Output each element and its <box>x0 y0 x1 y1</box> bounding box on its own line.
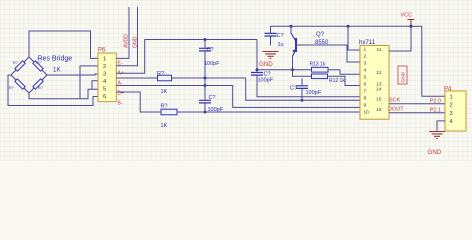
junction C7 bottom on A+ row <box>204 77 207 80</box>
svg-text:Res Bridge: Res Bridge <box>38 56 73 63</box>
wire P6 to R7 <box>116 77 157 79</box>
svg-text:100pF: 100pF <box>306 90 322 96</box>
junction C10 bottom <box>301 99 304 102</box>
wire hx711 pin11 to rail <box>389 26 411 51</box>
capacitor C8 plates <box>199 100 211 103</box>
svg-text:3: 3 <box>103 72 106 78</box>
svg-text:R?: R? <box>9 86 14 90</box>
capacitor C7 plates <box>199 48 211 51</box>
wire P6 pin1 to AVDD riser <box>116 7 129 58</box>
svg-text:2: 2 <box>103 64 106 70</box>
ground under C11 <box>263 52 279 59</box>
svg-text:8550: 8550 <box>315 40 329 46</box>
svg-text:GND: GND <box>428 149 442 156</box>
svg-text:3: 3 <box>450 111 453 117</box>
resistor bridge (Res Bridge) <box>11 57 47 93</box>
wire row A to hx711 pin8 <box>246 78 360 100</box>
wire rail to hx711 pin1 <box>348 26 360 50</box>
wire rail drop through C9 to hx711 pin7 <box>257 40 360 97</box>
junction C7 top <box>204 38 207 41</box>
svg-text:100pF: 100pF <box>258 78 274 84</box>
wire Q7 base to hx711 pin2 <box>296 45 360 62</box>
svg-text:1u: 1u <box>278 42 284 48</box>
junction VCC dot on rail <box>410 25 413 28</box>
wire to R12 <box>293 70 312 77</box>
svg-text:P6: P6 <box>98 48 106 54</box>
wire P6 pin2 to GND riser <box>116 7 137 66</box>
svg-text:1: 1 <box>364 47 367 53</box>
svg-text:10: 10 <box>364 110 370 116</box>
connector P6 <box>98 53 116 102</box>
wire DOUT <box>389 112 445 114</box>
junction row B <box>204 84 207 87</box>
svg-text:1K: 1K <box>161 89 168 95</box>
wire VCC rail <box>271 25 422 27</box>
wire through C8 <box>204 78 206 112</box>
svg-text:R?: R? <box>38 86 43 90</box>
wire P6 pin3 row up to AVDD rail <box>116 40 257 74</box>
wire vertical branch down <box>79 75 81 99</box>
svg-text:14: 14 <box>376 87 382 93</box>
junction C9 top <box>256 68 259 71</box>
svg-text:P2.1: P2.1 <box>430 107 441 113</box>
capacitor C9 plates <box>251 73 263 76</box>
wire through C7 <box>204 40 206 79</box>
svg-text:9: 9 <box>364 103 367 109</box>
svg-text:6: 6 <box>364 82 367 88</box>
wire bridge right to P6 pin3 <box>47 74 98 75</box>
svg-text:C?: C? <box>209 95 216 101</box>
transistor Q7 8550 (PNP) <box>291 33 296 57</box>
wire through C10 <box>301 78 303 100</box>
svg-text:B-: B- <box>118 101 123 107</box>
svg-text:C?: C? <box>290 86 297 92</box>
junction pin11 rail <box>410 25 413 28</box>
wire bridge left to P6 pin6 <box>8 75 98 106</box>
svg-text:R12 1k: R12 1k <box>329 78 345 84</box>
wire rail to P4 pin1 <box>422 26 445 96</box>
wire Q7 collector down <box>292 57 294 70</box>
wire R8 row to hx711 pin10 <box>177 111 360 113</box>
svg-text:11: 11 <box>377 47 382 53</box>
wire P6 row down to R8 <box>116 92 161 112</box>
connector P4 <box>445 91 466 131</box>
svg-text:GND: GND <box>259 61 273 68</box>
wire row B to hx711 pin9 <box>116 86 360 108</box>
svg-text:12: 12 <box>376 70 382 76</box>
svg-text:VCC: VCC <box>401 13 413 19</box>
svg-text:6: 6 <box>103 94 106 100</box>
svg-text:R?: R? <box>161 104 168 110</box>
svg-text:GND: GND <box>132 36 138 48</box>
wire through C11 <box>270 26 272 45</box>
wire stub to P6 pin4 <box>92 81 98 89</box>
svg-text:hx711: hx711 <box>359 40 376 46</box>
svg-text:SCK: SCK <box>389 98 401 104</box>
ground under P4 <box>429 132 445 139</box>
power VCC <box>408 20 415 27</box>
wire bridge bottom to P6 pin5 <box>29 89 98 99</box>
svg-text:R?: R? <box>13 61 18 65</box>
svg-text:1K: 1K <box>53 67 61 74</box>
svg-text:1K: 1K <box>161 123 168 129</box>
svg-text:C?: C? <box>277 33 284 39</box>
svg-text:8: 8 <box>364 96 367 102</box>
wire R12 to hx711 pin4 <box>328 76 361 85</box>
svg-text:3: 3 <box>364 61 367 67</box>
svg-text:AVDD: AVDD <box>124 34 130 48</box>
junction rail pin1 <box>347 25 350 28</box>
wire branch up to P6 pin2 <box>80 66 98 75</box>
svg-text:5: 5 <box>103 87 106 93</box>
svg-text:Q?: Q? <box>316 32 325 38</box>
capacitor C11 plates <box>265 33 277 36</box>
net label GND beside hx711 pin12 <box>398 66 407 84</box>
svg-text:GND: GND <box>401 71 407 82</box>
svg-text:P2.0: P2.0 <box>430 99 441 105</box>
wire SCK <box>389 103 445 105</box>
wire rail drop to R13 <box>257 69 312 71</box>
svg-text:R?: R? <box>157 71 164 77</box>
wire R7 to bend <box>172 77 247 79</box>
junction row C <box>204 111 207 114</box>
resistor R12 <box>312 74 328 79</box>
svg-text:DOUT: DOUT <box>388 107 404 113</box>
svg-text:R13 1k: R13 1k <box>310 62 326 68</box>
capacitor C10 plates <box>296 86 308 89</box>
wire R13 to hx711 pin3 <box>328 70 360 75</box>
svg-text:4: 4 <box>364 68 367 74</box>
resistor R7 <box>158 75 172 81</box>
op-amp U1 hx711 <box>360 45 389 119</box>
svg-text:2: 2 <box>364 54 367 60</box>
junction R13 left <box>291 68 294 71</box>
svg-text:16: 16 <box>376 107 382 113</box>
junction Q7 emitter rail <box>290 25 293 28</box>
svg-text:C?: C? <box>207 47 214 53</box>
svg-text:1: 1 <box>450 95 453 101</box>
wire Q7 emitter to rail <box>290 26 292 33</box>
svg-text:P4: P4 <box>444 87 452 93</box>
resistor R13 <box>312 67 329 72</box>
svg-text:2: 2 <box>450 102 453 108</box>
svg-text:5: 5 <box>364 75 367 81</box>
svg-text:15: 15 <box>376 97 382 103</box>
svg-text:7: 7 <box>364 89 367 95</box>
svg-text:B+: B+ <box>118 91 124 97</box>
resistor R8 <box>161 109 177 115</box>
svg-text:100pF: 100pF <box>204 61 220 67</box>
wire P4 pin4 to ground <box>437 121 445 132</box>
wire bridge top to P6 pin1 <box>29 31 98 58</box>
svg-text:1: 1 <box>103 57 106 63</box>
